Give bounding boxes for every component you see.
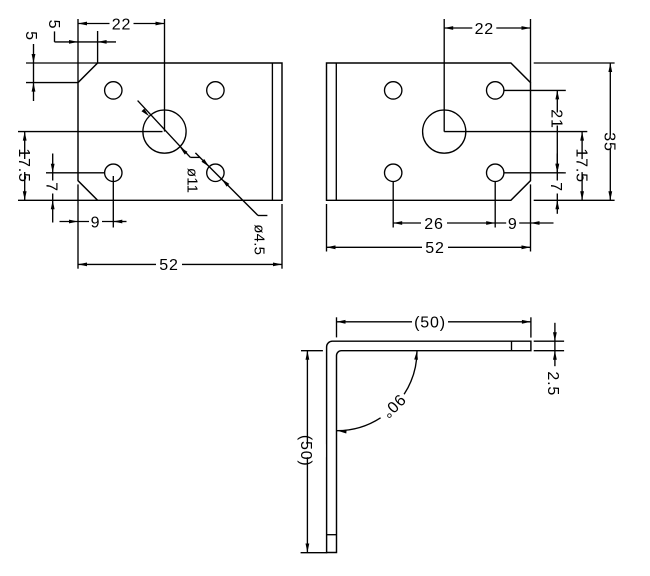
profile outline	[327, 341, 531, 552]
svg-text:21: 21	[548, 109, 565, 128]
dimension 9 left	[60, 214, 127, 231]
hole bottom-right small	[207, 164, 224, 181]
svg-text:9: 9	[91, 214, 101, 231]
dimension 9 right	[495, 216, 553, 233]
dimension 26	[393, 216, 495, 233]
dimension 22 right extension lines	[444, 19, 530, 132]
dimension 17.5 left	[6, 132, 43, 201]
hole right view bottom-left small	[385, 164, 402, 181]
svg-text:22: 22	[112, 16, 131, 33]
svg-text:35: 35	[601, 132, 618, 151]
hole large right view	[423, 110, 466, 153]
dimension 5 horizontal extension line	[97, 31, 99, 63]
dimension 2.5 extension lines	[534, 341, 564, 351]
right view plate outline	[327, 63, 531, 200]
profile end mark horizontal arm	[511, 341, 513, 351]
right view bend line	[335, 63, 337, 200]
dimension 7 right	[547, 154, 564, 214]
hole large left view (diam 11)	[143, 110, 186, 153]
svg-text:26: 26	[424, 216, 443, 233]
svg-text:ø4.5: ø4.5	[251, 224, 268, 255]
left view bend line	[271, 63, 273, 200]
svg-text:9: 9	[508, 216, 518, 233]
hole bottom-left small	[105, 164, 122, 181]
dimension (50) horizontal extension lines	[337, 317, 531, 337]
dimension (50) horizontal	[337, 314, 531, 331]
svg-text:5: 5	[22, 31, 39, 41]
dimension 22 left view	[78, 16, 165, 33]
svg-text:17.5: 17.5	[15, 148, 32, 182]
dimension 21 extension lines	[504, 90, 566, 172]
hole top-left small	[105, 82, 122, 99]
leader diameter 11	[138, 101, 201, 194]
svg-text:2.5: 2.5	[544, 371, 561, 396]
hole right view top-right small	[487, 82, 504, 99]
dimension 52 right	[327, 240, 531, 257]
svg-text:5: 5	[45, 20, 62, 30]
dimension 22 left view extension lines	[78, 19, 165, 132]
dimension 35	[598, 63, 623, 200]
angle arc 90 degrees	[337, 351, 418, 434]
dimension 7 left extension line	[46, 172, 105, 174]
label 90 degrees	[377, 390, 408, 421]
dimension 5 horizontal	[45, 20, 116, 44]
svg-text:(50): (50)	[414, 314, 446, 331]
dimension (50) vertical extension lines	[301, 351, 328, 553]
svg-text:22: 22	[475, 21, 494, 38]
profile end mark vertical arm	[327, 534, 337, 536]
dimension 5 vertical extension lines	[26, 63, 98, 83]
hole right view top-left small	[385, 82, 402, 99]
hole top-right small	[207, 82, 224, 99]
svg-text:7: 7	[42, 182, 59, 192]
dimension 21	[545, 90, 570, 172]
dimension 9 left extension line	[112, 176, 114, 228]
dimension 22 right	[444, 21, 530, 38]
dimension 17.5 left extension lines	[18, 132, 163, 201]
svg-text:ø11: ø11	[183, 168, 200, 193]
dimension 52 right extension lines	[327, 184, 531, 251]
dimension 17.5 right extension line	[444, 131, 587, 133]
dimension 35 extension lines	[534, 63, 615, 200]
dimension 2.5	[544, 323, 561, 396]
dimension 5 vertical	[22, 31, 39, 101]
svg-text:17.5: 17.5	[572, 148, 589, 182]
svg-text:(50): (50)	[297, 435, 314, 467]
svg-text:7: 7	[547, 182, 564, 192]
dimension 26 extension lines	[393, 182, 495, 228]
svg-text:52: 52	[425, 240, 444, 257]
dimension 7 left	[42, 154, 59, 223]
left view plate outline	[78, 63, 282, 200]
svg-text:52: 52	[159, 257, 178, 274]
hole right view bottom-right small	[487, 164, 504, 181]
dimension 17.5 right	[564, 132, 601, 201]
dimension 52 left	[78, 257, 282, 274]
dimension (50) vertical	[288, 351, 326, 553]
leader diameter 4.5	[195, 153, 267, 255]
dimension 52 left extension lines	[78, 184, 282, 268]
